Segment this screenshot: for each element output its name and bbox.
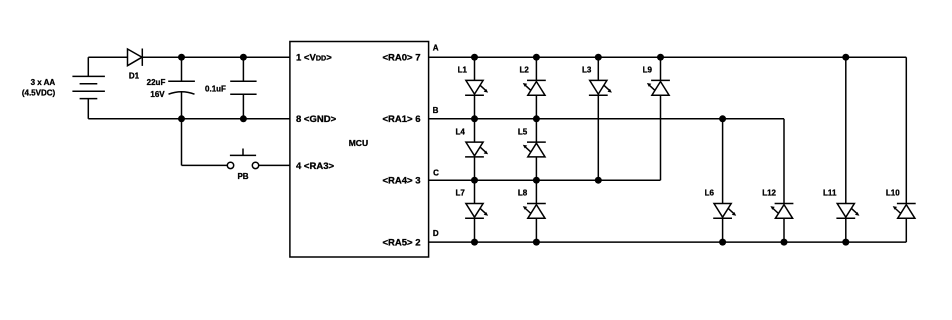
capacitor C2 0.1uF	[230, 57, 256, 119]
wire battery negative lead	[87, 99, 89, 119]
svg-text:L9: L9	[643, 65, 653, 74]
node junction row A / L1	[471, 54, 478, 61]
wire L12 anode lead	[783, 218, 785, 242]
wire row A from MCU RA0	[429, 56, 907, 58]
svg-text:D1: D1	[129, 72, 140, 81]
LED L5	[523, 142, 546, 157]
wire L8 cathode lead	[535, 180, 537, 203]
node junction row D / L8	[533, 239, 540, 246]
wire L1 cathode lead	[474, 95, 476, 119]
node junction row B / L5	[533, 115, 540, 122]
svg-text:L11: L11	[823, 189, 837, 198]
wire L6 cathode lead	[722, 218, 724, 242]
wire L6 anode lead from row B	[722, 119, 724, 204]
node junction row D / L7	[471, 239, 478, 246]
wire gnd junction down to push button	[182, 119, 228, 166]
wire ground rail battery to MCU GND pin 8	[88, 118, 290, 120]
node junction row A / L2	[533, 54, 540, 61]
wire diode D1 to MCU Vdd pin 1	[142, 56, 290, 58]
wire L3 cathode lead to row C	[597, 95, 599, 180]
LED L9	[647, 80, 670, 95]
wire L2 anode lead	[535, 95, 537, 119]
wire battery to diode D1	[88, 56, 127, 58]
svg-text:L3: L3	[582, 65, 592, 74]
wire L10 cathode lead from row A corner	[905, 57, 907, 203]
LED L7	[465, 204, 488, 219]
svg-text:A: A	[433, 43, 439, 52]
wire L12 cathode lead from row B corner	[783, 119, 785, 204]
LED L6	[713, 204, 736, 219]
svg-text:L6: L6	[705, 189, 715, 198]
wire L4 cathode lead	[474, 157, 476, 180]
svg-text:PB: PB	[237, 172, 248, 181]
diode D1	[128, 49, 143, 66]
wire L10 anode lead	[905, 218, 907, 242]
svg-text:(4.5VDC): (4.5VDC)	[22, 89, 56, 98]
svg-text:L5: L5	[518, 127, 528, 136]
wire row C from MCU RA4	[429, 179, 661, 181]
wire battery positive lead	[87, 57, 89, 76]
wire L11 anode lead from row A	[845, 57, 847, 203]
LED L4	[465, 142, 488, 157]
svg-text:4 <RA3>: 4 <RA3>	[296, 161, 334, 172]
wire L5 anode lead	[535, 157, 537, 180]
push button PB	[227, 149, 258, 169]
battery BT1 3xAA	[72, 76, 105, 98]
svg-text:8 <GND>: 8 <GND>	[296, 114, 337, 125]
svg-text:0.1uF: 0.1uF	[205, 85, 226, 94]
wire L7 anode lead	[474, 180, 476, 203]
svg-text:L12: L12	[762, 189, 776, 198]
wire L2 cathode lead	[535, 57, 537, 80]
node junction row A / L3	[595, 54, 602, 61]
svg-text:L2: L2	[520, 65, 530, 74]
LED L3	[589, 80, 612, 95]
node junction row C / L8	[533, 177, 540, 184]
svg-text:L8: L8	[518, 189, 528, 198]
svg-text:L4: L4	[455, 127, 465, 136]
node junction row A / L11	[842, 54, 849, 61]
wire L11 cathode lead	[845, 218, 847, 242]
svg-text:16V: 16V	[150, 90, 165, 99]
wire L5 cathode lead	[535, 119, 537, 142]
node junction top rail / 22uF	[178, 54, 185, 61]
node junction gnd rail / 0.1uF	[240, 115, 247, 122]
wire row B from MCU RA1	[429, 118, 784, 120]
node junction row D / L11	[842, 239, 849, 246]
svg-text:22uF: 22uF	[147, 78, 166, 87]
node junction top rail / 0.1uF	[240, 54, 247, 61]
svg-text:MCU: MCU	[349, 138, 368, 148]
svg-text:3 x AA: 3 x AA	[31, 78, 56, 87]
wire L1 anode lead	[474, 57, 476, 80]
LED L8	[523, 204, 546, 219]
LED L11	[836, 204, 859, 219]
svg-text:<RA4> 3: <RA4> 3	[382, 176, 420, 187]
node junction gnd rail / 22uF / PB	[178, 115, 185, 122]
node junction row D / L12	[781, 239, 788, 246]
op-amp U1 MCU box	[290, 42, 429, 258]
capacitor C1 22uF	[168, 57, 195, 119]
node junction row A / L9	[657, 54, 664, 61]
LED L2	[523, 80, 546, 95]
svg-text:<RA0> 7: <RA0> 7	[382, 53, 420, 64]
wire push button to MCU RA3 pin 4	[259, 164, 290, 166]
node junction row B / L6	[719, 115, 726, 122]
svg-text:<RA1> 6: <RA1> 6	[382, 114, 420, 125]
LED L10	[893, 204, 916, 219]
svg-text:B: B	[433, 106, 439, 115]
svg-text:1 <VDD>: 1 <VDD>	[296, 53, 332, 64]
wire L9 cathode lead	[660, 57, 662, 80]
svg-text:L1: L1	[458, 65, 468, 74]
wire L9 anode lead to row C	[660, 95, 662, 180]
LED L12	[770, 204, 793, 219]
node junction row C / L3	[595, 177, 602, 184]
wire L8 anode lead	[535, 218, 537, 242]
svg-text:D: D	[433, 229, 439, 238]
node junction row C / L7	[471, 177, 478, 184]
wire L4 anode lead	[474, 119, 476, 142]
svg-text:C: C	[433, 168, 439, 177]
node junction row D / L6	[719, 239, 726, 246]
svg-text:L10: L10	[886, 189, 900, 198]
svg-text:<RA5> 2: <RA5> 2	[382, 238, 420, 249]
wire L3 anode lead	[597, 57, 599, 80]
wire row D from MCU RA5	[429, 241, 907, 243]
svg-text:L7: L7	[455, 189, 465, 198]
wire L7 cathode lead	[474, 218, 476, 242]
node junction row B / L4	[471, 115, 478, 122]
LED L1	[465, 80, 488, 95]
